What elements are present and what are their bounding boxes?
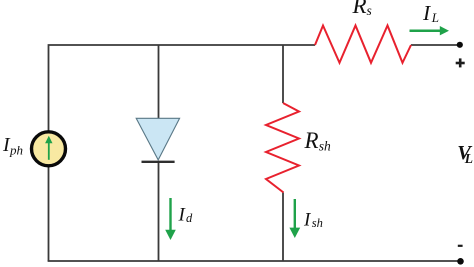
wire diode branch top bbox=[158, 45, 160, 119]
wire bottom bus bbox=[48, 260, 461, 262]
svg-text:R: R bbox=[304, 128, 319, 153]
svg-text:L: L bbox=[431, 10, 439, 25]
label minus sign bbox=[458, 245, 463, 247]
resistor Rsh bbox=[266, 103, 299, 193]
wire diode branch lower bbox=[158, 163, 160, 261]
diode cathode bar bbox=[142, 161, 175, 163]
svg-text:s: s bbox=[367, 3, 372, 18]
svg-text:I: I bbox=[303, 209, 312, 230]
svg-text:sh: sh bbox=[312, 216, 323, 230]
arrow Id bbox=[165, 198, 176, 240]
node plus terminal bbox=[457, 42, 463, 48]
svg-text:sh: sh bbox=[319, 139, 331, 154]
svg-text:I: I bbox=[422, 1, 431, 25]
arrow IL bbox=[410, 26, 450, 35]
wire shunt branch top bbox=[282, 45, 284, 103]
wire left branch lower bbox=[48, 167, 50, 261]
wire shunt branch lower bbox=[282, 193, 284, 262]
wire top bus from left corner to Rs bbox=[49, 45, 316, 131]
wire Rs to plus terminal bbox=[411, 44, 460, 46]
arrow Ish bbox=[289, 199, 300, 238]
svg-text:R: R bbox=[352, 0, 367, 18]
svg-text:L: L bbox=[464, 151, 473, 166]
current source Iph bbox=[32, 132, 66, 166]
current source arrow bbox=[48, 143, 50, 160]
resistor Rs bbox=[315, 26, 411, 63]
diode D1 bbox=[136, 118, 179, 160]
label plus sign bbox=[456, 58, 465, 67]
node minus terminal bbox=[457, 258, 464, 265]
svg-text:d: d bbox=[186, 211, 193, 225]
svg-text:ph: ph bbox=[9, 143, 23, 158]
